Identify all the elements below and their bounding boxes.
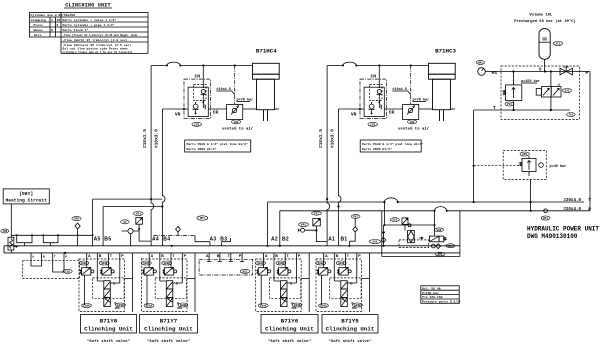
check valve S05	[370, 225, 386, 247]
svg-text:cylinders travel max at 7.5s a: cylinders travel max at 7.5s are 73 l/mi…	[63, 50, 133, 54]
svg-text:B: B	[43, 255, 45, 259]
svg-text:P: P	[588, 206, 591, 212]
label p=150 bar	[521, 79, 540, 84]
label oval S10	[390, 218, 399, 222]
label oval HP6	[435, 252, 444, 256]
svg-text:B71Y7: B71Y7	[160, 317, 178, 324]
wire P main line	[280, 207, 590, 211]
svg-text:1: 1	[51, 18, 53, 22]
label oval relief	[505, 102, 514, 106]
svg-text:P: P	[239, 254, 242, 258]
svg-text:Parts PG40 G 1/4" plat line G1: Parts PG40 G 1/4" plat line G1/4"	[362, 142, 423, 146]
svg-text:T: T	[493, 105, 496, 111]
svg-text:MP3: MP3	[301, 224, 306, 227]
solenoid vent PT3	[313, 218, 327, 241]
svg-text:T01: T01	[569, 114, 574, 117]
svg-text:PRV: PRV	[522, 153, 527, 156]
svg-text:W0B: W0B	[437, 229, 442, 232]
label oval 10B	[1, 229, 9, 233]
svg-text:#20x4.0: #20x4.0	[563, 199, 581, 203]
label p=70 bar (HC4)	[237, 98, 254, 103]
svg-text:Cylinder dia d 90/56x450: Cylinder dia d 90/56x450	[31, 13, 76, 17]
soft shift group B71Y8	[79, 253, 133, 312]
label oval accumulator	[553, 42, 562, 46]
svg-text:Parts block 1": Parts block 1"	[63, 28, 89, 32]
svg-text:B71HC3: B71HC3	[435, 47, 456, 54]
svg-text:VR: VR	[175, 111, 181, 117]
svg-text:Volume 10L: Volume 10L	[529, 13, 553, 18]
svg-text:0: 0	[51, 28, 53, 32]
wire P left drop to manifold	[279, 211, 281, 246]
svg-text:A1: A1	[328, 237, 335, 243]
svg-text:vented to air: vented to air	[222, 126, 254, 131]
svg-text:P=m 120-150: P=m 120-150	[422, 295, 443, 299]
note box HC3	[360, 140, 423, 152]
svg-text:A4: A4	[152, 237, 159, 243]
svg-text:A5: A5	[94, 237, 101, 243]
svg-text:Clinching Unit: Clinching Unit	[326, 325, 375, 332]
check and coupling	[431, 244, 455, 249]
wire P header	[485, 71, 590, 73]
label #10x1.5 leader (HC3)	[392, 88, 410, 95]
pilot line T to reducing valve	[474, 165, 522, 167]
svg-text:B1: B1	[341, 237, 348, 243]
svg-text:PT3: PT3	[314, 212, 319, 215]
svg-text:Parts cylinder + pipe 1 1/4": Parts cylinder + pipe 1 1/4"	[63, 23, 115, 27]
svg-text:S05: S05	[373, 241, 378, 244]
relief valve p=150 bar	[503, 72, 522, 111]
svg-text:#20x4.0: #20x4.0	[563, 208, 581, 212]
label oval PT3	[312, 211, 322, 215]
vent valve S10	[402, 218, 411, 231]
svg-text:Parts cylinder + valve 1 1/2": Parts cylinder + valve 1 1/2"	[63, 18, 117, 22]
label oval reducing	[520, 152, 529, 156]
needle valve gauge mid	[121, 220, 140, 246]
svg-text:P: P	[65, 255, 67, 259]
svg-text:vented to air: vented to air	[398, 126, 430, 131]
svg-text:"Soft shift valve": "Soft shift valve"	[87, 339, 130, 344]
svg-text:CR: CR	[389, 110, 395, 116]
heater valve	[8, 237, 17, 253]
svg-text:Parts PG40 G 1/4" plat line G1: Parts PG40 G 1/4" plat line G1/4"	[187, 142, 248, 146]
svg-text:A3: A3	[210, 237, 217, 243]
pressure reducing unit dashed boundary	[503, 151, 546, 180]
svg-text:AC1: AC1	[556, 43, 561, 46]
mid blank station box	[199, 253, 253, 275]
soft shift group B71Y5	[316, 253, 370, 312]
svg-text:B71HC4: B71HC4	[256, 47, 277, 54]
svg-text:-Flow (Work) 97 l/min/cyl (3.0: -Flow (Work) 97 l/min/cyl (3.0 sec)	[63, 38, 128, 42]
shut-off valve P	[560, 67, 573, 75]
svg-text:B2: B2	[282, 237, 289, 243]
return filter block	[382, 211, 460, 257]
svg-text:MP4: MP4	[200, 217, 205, 220]
svg-text:p=40 bar: p=40 bar	[550, 164, 567, 169]
svg-text:B5: B5	[104, 237, 111, 243]
wire heating drop	[10, 204, 12, 237]
svg-text:Waves: Waves	[34, 28, 43, 32]
cylinder circuit B71HC3	[318, 62, 455, 246]
heating circuit box 08Y	[3, 189, 49, 204]
svg-text:MA1: MA1	[478, 62, 483, 65]
svg-text:"Soft shift valve": "Soft shift valve"	[147, 339, 190, 344]
arrow filter out	[419, 237, 423, 239]
title CLINCHING UNIT	[64, 3, 112, 9]
svg-text:PV1: PV1	[507, 103, 512, 106]
label p=70 bar (HC3)	[413, 98, 430, 103]
svg-text:MS: MS	[492, 70, 498, 76]
svg-text:CR: CR	[213, 110, 219, 116]
data table bottom right	[421, 286, 461, 304]
svg-text:"Soft shift valve": "Soft shift valve"	[328, 339, 371, 344]
bridge loop 2	[43, 235, 58, 246]
power unit dashed boundary	[501, 66, 580, 119]
svg-text:S01: S01	[565, 90, 570, 93]
svg-text:CS8: CS8	[65, 270, 70, 273]
unit box B71Y8	[81, 315, 137, 334]
svg-text:T: T	[588, 197, 591, 203]
bypass valve	[430, 236, 447, 242]
svg-text:PS4: PS4	[136, 213, 141, 216]
svg-text:Pressure ports G 1/2": Pressure ports G 1/2"	[422, 300, 461, 304]
svg-text:HP1: HP1	[448, 245, 453, 248]
svg-text:DWG M490130100: DWG M490130100	[527, 233, 578, 240]
gauge PV2	[348, 215, 360, 247]
wire left T link	[93, 198, 163, 200]
svg-text:Parts VR2S G1/4": Parts VR2S G1/4"	[362, 147, 392, 151]
svg-text:-Flow (Travel 91 l/min/cyl (8.: -Flow (Travel 91 l/min/cyl (8.25 and Reg…	[63, 33, 138, 37]
wire accumulator drop	[544, 59, 546, 71]
soft shift group B71Y7	[141, 253, 195, 312]
svg-text:B71Y6: B71Y6	[281, 317, 299, 324]
label oval MP4	[197, 216, 208, 220]
label #10x1.5 leader (HC4)	[216, 88, 234, 95]
svg-text:Clinching Unit: Clinching Unit	[84, 325, 133, 332]
needle valve MP3	[298, 223, 316, 233]
wire T left drop to manifold	[267, 202, 269, 246]
unit box B71Y7	[140, 315, 198, 334]
wire P drop right	[589, 72, 591, 211]
label oval T	[567, 113, 576, 117]
bridge loop 1	[17, 235, 32, 246]
wire reducing valve drop	[530, 179, 532, 210]
label oval bypass	[434, 228, 443, 232]
wire left P link	[103, 206, 162, 208]
svg-text:[08Y]: [08Y]	[19, 191, 33, 197]
svg-text:B71Y8: B71Y8	[100, 317, 118, 324]
svg-text:B: B	[217, 254, 220, 258]
svg-text:Parts VR2S G1/4": Parts VR2S G1/4"	[187, 147, 217, 151]
svg-text:P: P	[586, 70, 589, 76]
svg-text:Clamping: Clamping	[31, 18, 46, 22]
reducing valve p=40 bar	[520, 156, 544, 176]
svg-text:PV2: PV2	[353, 216, 358, 219]
check valve left	[72, 217, 81, 246]
svg-text:a1: a1	[558, 84, 562, 87]
manifold block	[4, 246, 460, 253]
svg-text:Oil: VG 46: Oil: VG 46	[422, 286, 441, 290]
label oval gauge	[476, 60, 484, 64]
soft shift group B71Y6	[256, 253, 310, 312]
port A5 drop	[92, 199, 94, 246]
wire T drop	[473, 110, 475, 202]
svg-text:VR: VR	[351, 111, 357, 117]
unit box B71Y5	[322, 315, 378, 334]
solenoid vent PS4	[134, 212, 152, 242]
svg-text:Clinching Unit: Clinching Unit	[144, 325, 193, 332]
svg-text:B71Y5: B71Y5	[341, 317, 359, 324]
check valve A3 pilot	[154, 227, 231, 246]
svg-text:16: 16	[57, 18, 61, 22]
svg-text:Press: Press	[34, 23, 43, 27]
heating loop dashed box	[23, 258, 80, 279]
svg-text:HP5: HP5	[74, 218, 79, 221]
node rail joints	[171, 245, 173, 247]
svg-text:CH: CH	[370, 74, 376, 80]
svg-text:P=150 bar: P=150 bar	[422, 291, 439, 295]
svg-text:Heating Circuit: Heating Circuit	[6, 198, 48, 204]
svg-text:Precharged 50 bar (at 20°C): Precharged 50 bar (at 20°C)	[514, 19, 576, 24]
svg-text:"Soft shift valve": "Soft shift valve"	[268, 339, 311, 344]
svg-text:Clinching Unit: Clinching Unit	[265, 325, 314, 332]
svg-text:S7: S7	[123, 221, 127, 224]
accumulator	[539, 29, 550, 60]
return filter	[399, 230, 429, 247]
wire T header	[474, 109, 570, 111]
svg-text:A2: A2	[271, 237, 278, 243]
port B5 drop	[102, 207, 104, 246]
wire T main line	[268, 198, 584, 202]
note box HC4	[185, 140, 251, 152]
pressure gauge MS	[478, 68, 486, 76]
wire upper connector line	[11, 234, 92, 236]
cylinder circuit B71HC4	[142, 62, 279, 246]
solenoid unloading valve	[536, 72, 561, 111]
svg-text:B4: B4	[163, 237, 170, 243]
svg-text:Wire: Wire	[34, 33, 42, 37]
unit box B71Y6	[261, 315, 318, 334]
svg-text:A: A	[32, 255, 34, 259]
label oval solenoid	[563, 89, 572, 93]
svg-text:A: A	[206, 254, 209, 258]
svg-text:T: T	[54, 255, 56, 259]
svg-text:5: 5	[57, 23, 59, 27]
wire S10 branch	[384, 202, 434, 236]
svg-text:MP1: MP1	[543, 217, 548, 220]
left heating ports	[31, 253, 67, 259]
svg-text:CH: CH	[194, 74, 200, 80]
svg-text:HP6: HP6	[438, 253, 443, 256]
svg-text:S10: S10	[392, 219, 397, 222]
svg-text:10B: 10B	[2, 230, 7, 233]
svg-text:MS2: MS2	[243, 270, 248, 273]
svg-text:HYDRAULIC POWER UNIT: HYDRAULIC POWER UNIT	[527, 226, 599, 233]
spec table	[30, 13, 149, 54]
coupling on P line	[541, 209, 550, 220]
